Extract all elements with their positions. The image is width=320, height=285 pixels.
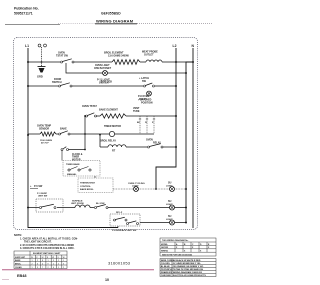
wire: neutral branch bus: [186, 62, 193, 223]
svg-text:BROIL: BROIL: [15, 264, 22, 266]
svg-text:1: 1: [32, 260, 33, 262]
svg-text:1100 OHMS: 1100 OHMS: [40, 140, 52, 142]
frame border: [14, 38, 198, 230]
svg-text:ELEMENT WATTAGE CHART: ELEMENT WATTAGE CHART: [33, 252, 61, 255]
svg-text:MANUAL: MANUAL: [67, 173, 77, 176]
svg-text:W: W: [31, 257, 33, 259]
box: oven control: [78, 178, 113, 193]
svg-text:2: 2: [53, 264, 54, 266]
svg-text:P-4 SURFACE UNIT SW: P-4 SURFACE UNIT SW: [112, 229, 137, 232]
svg-text:Publication No.: Publication No.: [14, 7, 39, 11]
switch: P-2: [95, 207, 97, 209]
svg-text:5: 5: [58, 264, 59, 266]
lamp: oven cycling light: [134, 187, 139, 192]
svg-text:POSITION: POSITION: [141, 102, 153, 105]
svg-text:L1: L1: [25, 44, 29, 48]
svg-text:TN TAN PK PINK MR MAROON: TN TAN PK PINK MR MAROON: [173, 268, 204, 271]
element: surface unit coil: [75, 205, 90, 208]
svg-text:2: 2: [32, 264, 33, 266]
pink fold line: [2, 269, 154, 271]
svg-text:1: 1: [63, 260, 64, 262]
element: oven sensor: [40, 132, 56, 136]
svg-text:WIRE CODE: WIRE CODE: [161, 260, 174, 262]
terminal drops: [140, 116, 154, 134]
svg-text:SWITCH: SWITCH: [52, 81, 62, 84]
svg-text:GEF355BSD: GEF355BSD: [101, 12, 121, 16]
svg-text:3: 3: [37, 267, 38, 269]
node: branch junctions: [185, 72, 187, 74]
svg-text:CHECKED: CHECKED: [161, 275, 172, 277]
svg-text:L2: L2: [173, 44, 177, 48]
svg-text:3: 3: [63, 264, 64, 266]
element: bake element 2: [108, 145, 126, 147]
svg-text:BK BLACK W WHITE R RED: BK BLACK W WHITE R RED: [173, 259, 201, 262]
svg-text:THIS WIRING DIAGRAM No.: THIS WIRING DIAGRAM No.: [162, 239, 189, 242]
lamp: SU light 1: [170, 187, 175, 192]
svg-text:PR PURPLE: PR PURPLE: [161, 269, 174, 271]
switch: oven relay contact: [148, 146, 150, 148]
box: P-3 surface switch: [36, 199, 63, 212]
svg-text:NOTE:: NOTE:: [14, 233, 22, 237]
svg-text:316001053: 316001053: [108, 261, 131, 266]
svg-text:4: 4: [53, 267, 54, 269]
wire: vertical x85: [84, 116, 86, 150]
svg-text:THERMOSTAT: THERMOSTAT: [80, 182, 96, 185]
svg-text:SEE NOTE FOR USE 316001053: SEE NOTE FOR USE 316001053: [162, 254, 193, 256]
svg-text:UNIT SW: UNIT SW: [38, 196, 48, 198]
svg-text:BROIL RELAY: BROIL RELAY: [100, 140, 116, 143]
svg-text:SURFACE: SURFACE: [72, 200, 83, 203]
element: broil element: [112, 60, 140, 65]
wire: rung F: [100, 135, 176, 147]
svg-text:OUTLET: OUTLET: [144, 54, 154, 57]
svg-text:UNIT 2100W: UNIT 2100W: [71, 203, 85, 205]
svg-text:SU: SU: [168, 182, 172, 185]
svg-text:OVEN TSTAT: OVEN TSTAT: [82, 105, 97, 108]
wire: rung I feed: [118, 223, 186, 228]
svg-text:3: 3: [53, 260, 54, 262]
svg-text:RELAY: RELAY: [153, 142, 161, 145]
element: bake element: [100, 114, 126, 118]
lamp: SU light 2: [170, 205, 175, 210]
node: junction x85: [84, 133, 86, 135]
wire: L2 bus with jog: [156, 48, 176, 189]
svg-text:4: 4: [42, 264, 43, 266]
wire: N bus: [192, 48, 194, 228]
svg-text:LIGHT: LIGHT: [166, 219, 173, 221]
svg-text:BAKE ELEMENT: BAKE ELEMENT: [99, 109, 118, 112]
svg-text:LIGHT: LIGHT: [166, 204, 173, 206]
ground symbol: [38, 66, 46, 68]
svg-text:SURF UNIT: SURF UNIT: [15, 257, 26, 259]
svg-text:3. CIRCUITS 2 PR B COLOR OVEN: 3. CIRCUITS 2 PR B COLOR OVEN IN ALL CIR…: [20, 247, 75, 250]
svg-text:8: 8: [42, 260, 43, 262]
svg-text:W: W: [52, 257, 54, 259]
switch: thermal limiter: [61, 61, 63, 63]
svg-text:SU: SU: [168, 215, 172, 218]
wire: rung E: [28, 133, 154, 135]
svg-text:1: 1: [58, 267, 59, 269]
wire: rung B: [66, 63, 186, 73]
svg-text:RT: RT: [112, 150, 116, 153]
svg-text:7: 7: [42, 267, 43, 269]
svg-text:SU: SU: [168, 200, 172, 203]
header dotted rule: [58, 23, 95, 25]
svg-text:WIRING DIAGRAM: WIRING DIAGRAM: [96, 19, 134, 24]
svg-text:WIRING: WIRING: [161, 251, 169, 253]
switch: timer contact: [68, 149, 85, 151]
svg-text:2: 2: [37, 260, 38, 262]
svg-text:BAKE: BAKE: [15, 259, 21, 262]
svg-text:TSTAT SW: TSTAT SW: [56, 55, 69, 58]
svg-text:MODEL: MODEL: [161, 244, 169, 246]
node: L1 junctions: [27, 61, 29, 63]
node: L2 junctions: [175, 61, 177, 63]
svg-text:OR ORANGE GN GREEN V VIO: OR ORANGE GN GREEN V VIO: [173, 265, 204, 268]
svg-text:TIMER: TIMER: [72, 157, 79, 159]
title block table 2: [160, 259, 216, 277]
svg-text:AT 75 F: AT 75 F: [41, 142, 49, 145]
svg-text:EB48: EB48: [17, 274, 27, 278]
wire: rung C: [28, 85, 176, 87]
svg-text:TIMED BAKE: TIMED BAKE: [66, 163, 80, 166]
svg-text:P-7 LOCK: P-7 LOCK: [101, 81, 112, 84]
svg-text:RELAY: RELAY: [139, 98, 147, 101]
svg-text:W: W: [145, 122, 147, 124]
svg-text:BL BLUE: BL BLUE: [161, 266, 171, 268]
svg-text:1: 1: [32, 267, 33, 269]
wire: rung A: [28, 61, 186, 63]
element: oven vent coil: [146, 60, 162, 62]
ground GRD terminals: [38, 44, 41, 47]
svg-text:40W BAYONET: 40W BAYONET: [94, 67, 112, 70]
lamp: oven light: [103, 71, 108, 76]
svg-text:OVEN: OVEN: [146, 139, 153, 142]
svg-text:1: 1: [48, 260, 49, 262]
svg-text:GY GRAY BR BROWN Y YEL: GY GRAY BR BROWN Y YEL: [173, 262, 202, 265]
svg-text:WIRING DIAGRAM 316001053: WIRING DIAGRAM 316001053: [173, 271, 203, 274]
wire: rung G: [113, 188, 186, 190]
svg-text:2: 2: [48, 267, 49, 269]
title block table 1: [160, 238, 216, 256]
svg-text:TUBE: TUBE: [133, 110, 140, 113]
switch: oven door switch: [59, 85, 61, 87]
svg-text:COLORS: COLORS: [161, 263, 171, 265]
svg-text:BAKE BROIL: BAKE BROIL: [80, 188, 94, 191]
wire: rung H: [28, 207, 186, 209]
svg-text:2: 2: [63, 267, 64, 269]
switch: selector contact: [59, 133, 61, 135]
box: P-4 surface switch: [110, 214, 140, 226]
svg-text:GEF355: GEF355: [161, 247, 168, 249]
svg-text:5995271171: 5995271171: [14, 12, 33, 16]
wire: GRD drop: [41, 47, 43, 66]
lamp: lock light: [147, 91, 152, 96]
svg-text:9: 9: [48, 264, 49, 266]
switch: thermostat contact: [86, 115, 88, 117]
svg-text:W: W: [63, 257, 65, 259]
svg-text:6: 6: [37, 264, 38, 266]
box: clock-timer: [63, 161, 100, 177]
svg-text:2: 2: [58, 260, 59, 262]
svg-text:BAKE: BAKE: [60, 128, 67, 131]
svg-text:CLOCK &: CLOCK &: [72, 154, 83, 156]
svg-text:BL 2OW: BL 2OW: [96, 203, 105, 205]
svg-text:DRAWN BY: DRAWN BY: [161, 271, 173, 274]
header rule left: [5, 24, 60, 26]
svg-text:LIGHT: LIGHT: [132, 186, 139, 188]
wire: rung D: [96, 115, 176, 117]
svg-text:13.6 OHMS 3400W: 13.6 OHMS 3400W: [108, 55, 129, 58]
svg-text:P-5 SW: P-5 SW: [34, 185, 43, 188]
svg-text:GRD: GRD: [37, 75, 43, 79]
table: surface unit chart: [14, 251, 67, 269]
svg-text:10: 10: [105, 278, 109, 282]
svg-text:ELECTROLUX HOME PRODUCTS: ELECTROLUX HOME PRODUCTS: [173, 275, 207, 277]
svg-text:CONTROL: CONTROL: [80, 186, 91, 188]
switch: latch switch: [144, 85, 146, 87]
svg-text:W: W: [42, 257, 44, 259]
motor: timer motor: [109, 131, 114, 136]
wire: L1 bus: [28, 48, 118, 228]
svg-text:TIMER MOTOR: TIMER MOTOR: [104, 125, 121, 128]
svg-text:CLEAN: CLEAN: [15, 266, 22, 269]
lamp: SU light 3: [170, 220, 175, 225]
svg-text:RF LF: RF LF: [116, 212, 123, 214]
svg-text:LIGHT: LIGHT: [166, 185, 173, 187]
svg-text:SENSOR: SENSOR: [39, 128, 49, 131]
